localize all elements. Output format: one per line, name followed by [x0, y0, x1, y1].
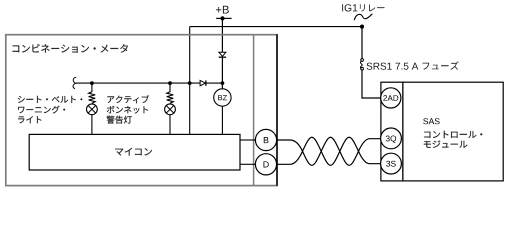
- wire-break squiggle to IG1 relay: [354, 14, 372, 20]
- label SRS1 7.5 A フューズ: [367, 63, 419, 70]
- wire vertical branch into meter: [189, 27, 191, 135]
- node junction dot branch: [188, 81, 192, 85]
- label モジュール: [424, 141, 468, 148]
- pin 2AD: [381, 88, 401, 108]
- node IG1 junction dot: [360, 25, 364, 29]
- wire lamp active bonnet drop: [169, 83, 171, 92]
- diode D1 vertical (from +B): [219, 52, 226, 57]
- label アクティブ: [107, 95, 149, 103]
- combination meter box コンビネーション・メータ: [6, 35, 277, 186]
- label ライト: [18, 116, 41, 123]
- pin B: [255, 129, 276, 150]
- wire IG1 vertical to fuse: [361, 27, 363, 59]
- meter box / connector divider: [253, 35, 255, 186]
- lamp active bonnet bulb circle-X: [165, 104, 176, 115]
- node junction dot lamp2: [168, 81, 172, 85]
- connector strip right edge: [276, 34, 278, 186]
- wire fuse to 2AD: [362, 70, 381, 98]
- SAS control module box: [403, 82, 503, 181]
- wire +B vertical into meter: [221, 18, 223, 89]
- wire diode to node: [206, 82, 222, 84]
- label +B: [216, 6, 229, 14]
- label IG1リレー: [342, 4, 357, 11]
- node junction dot buzzer line: [221, 81, 225, 85]
- twisted pair wire D-3S: [277, 137, 381, 165]
- wire micom to pin D: [240, 163, 255, 165]
- microcomputer box マイコン: [29, 134, 240, 170]
- wire +B terminal bar: [216, 17, 231, 19]
- node +B junction dot: [220, 16, 224, 20]
- wire lamp seat-belt warning to micom: [91, 115, 93, 135]
- wire-break hook: [73, 77, 76, 88]
- wire lamp bus: [76, 82, 200, 84]
- lamp seat-belt warning filament zigzag: [89, 92, 96, 103]
- pin 3Q: [381, 128, 402, 149]
- label コントロール・: [424, 131, 482, 138]
- wire +B to IG1 horizontal: [190, 26, 362, 28]
- SAS connector strip: [381, 82, 403, 181]
- label ワーニング・: [18, 106, 65, 114]
- wire lamp active bonnet to micom: [169, 115, 171, 135]
- wire buzzer to micom: [221, 106, 223, 134]
- label 警告灯: [107, 116, 132, 124]
- pin D: [255, 154, 276, 175]
- buzzer BZ: [214, 89, 231, 106]
- label シート・ベルト・: [18, 96, 83, 103]
- wire lamp seat-belt warning drop: [91, 83, 93, 92]
- wire micom to pin B: [240, 139, 255, 141]
- twisted pair wire B-3Q: [277, 137, 381, 165]
- label マイコン: [115, 148, 152, 156]
- label コンビネーション・メータ: [13, 44, 128, 53]
- fuse SRS1 squiggle: [360, 59, 363, 70]
- pin 3S: [381, 153, 402, 174]
- label SAS: [423, 118, 439, 124]
- lamp active bonnet filament zigzag: [167, 92, 174, 103]
- lamp seat-belt warning bulb circle-X: [87, 104, 98, 115]
- node junction dot lamp1: [90, 81, 94, 85]
- label ボンネット: [107, 106, 148, 114]
- diode D2 horizontal (bus to buzzer node): [200, 80, 206, 85]
